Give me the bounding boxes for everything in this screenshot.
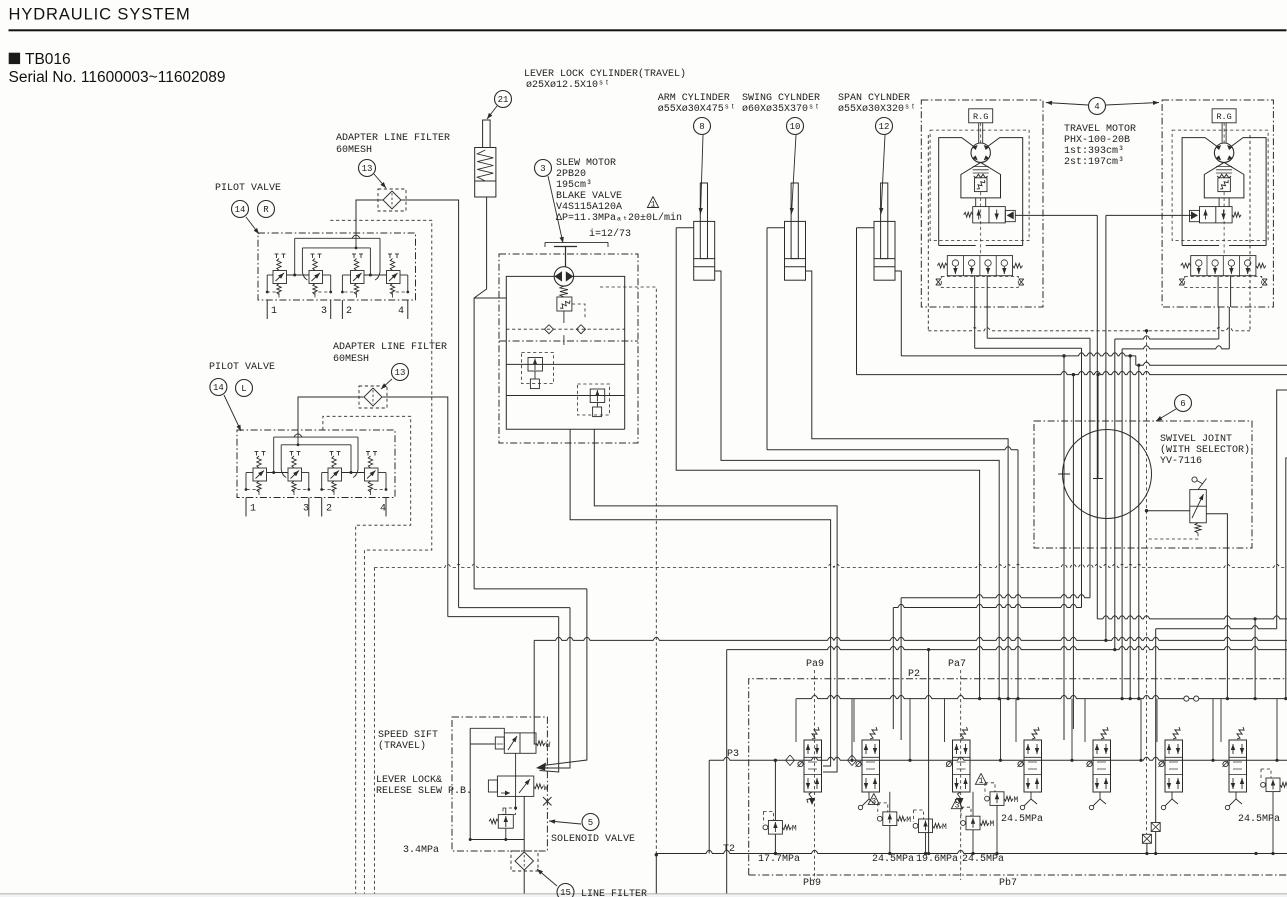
relief valve 17.7MPa — [768, 821, 782, 835]
travel brake pentagon — [1204, 162, 1244, 198]
feed wire 1 from filter L — [448, 616, 559, 618]
svg-text:15: 15 — [560, 888, 571, 897]
slew check valve line — [506, 328, 624, 330]
balloon 13 (R) — [359, 160, 376, 177]
svg-text:Pa7: Pa7 — [948, 659, 966, 670]
slew motor drive shaft T — [554, 246, 577, 248]
travel brake valve — [975, 178, 988, 192]
selector valve — [1190, 490, 1207, 523]
wire lever lock cylinder down — [474, 197, 487, 589]
adapter line filter 13 R — [378, 189, 406, 211]
relief valve right 24.5MPa — [1266, 778, 1280, 792]
slew relief valve lower — [590, 389, 605, 403]
svg-text:3.4MPa: 3.4MPa — [403, 845, 439, 856]
travel pilot dashed wire — [1146, 331, 1148, 740]
leader arrows balloon 4 — [1046, 103, 1088, 106]
leader arrow to pilot valve R — [246, 217, 259, 234]
svg-text:1st:393cm³: 1st:393cm³ — [1064, 146, 1124, 157]
leader arrow solenoid valve — [549, 821, 581, 824]
svg-text:R: R — [263, 205, 269, 215]
travel motor shaft — [978, 123, 980, 143]
gauge port R.G — [1212, 109, 1236, 123]
wire filter L to pilot valve L crown — [298, 397, 364, 434]
line filter 15 — [511, 851, 538, 871]
SPAN CYLNDER body — [874, 221, 895, 280]
svg-text:2: 2 — [326, 504, 332, 515]
svg-text:17.7MPa: 17.7MPa — [758, 854, 800, 865]
travel shift valve — [947, 256, 1012, 276]
svg-text:3: 3 — [540, 164, 545, 174]
drain solid below T2 — [655, 855, 657, 894]
slew relief line lower — [506, 395, 624, 397]
travel motor envelope — [939, 138, 974, 246]
travel brake valve — [1218, 178, 1231, 192]
feed wire 3 from lever lock cylinder — [474, 588, 587, 590]
leader arrow SPAN CYLNDER — [881, 135, 885, 214]
feed wire 2 from filter R — [459, 607, 570, 609]
svg-text:13: 13 — [395, 368, 406, 378]
relief valve section3 24.5MPa — [966, 816, 980, 830]
balloon 5 — [582, 814, 599, 831]
svg-text:1: 1 — [271, 306, 277, 317]
leader arrow line filter — [537, 869, 557, 886]
counterbalance valve — [973, 207, 1006, 223]
check diamond right — [577, 325, 586, 334]
control valve block box — [749, 679, 1287, 875]
SPAN CYLNDER rod-side port wire — [857, 227, 875, 229]
balloon 8 — [694, 118, 711, 135]
svg-text:Pb9: Pb9 — [803, 877, 821, 889]
svg-text:3: 3 — [955, 802, 960, 811]
travel motor envelope — [1182, 138, 1217, 246]
relief valve high 24.5MPa right of S3 — [990, 792, 1004, 806]
ARM CYLINDER rod-side port wire — [676, 227, 694, 229]
svg-text:ΔP=11.3MPaₐₜ20±0L/min: ΔP=11.3MPaₐₜ20±0L/min — [556, 212, 682, 224]
spool valve section x=1102 — [1084, 699, 1086, 742]
selector right wire — [1206, 514, 1227, 699]
gauge port R.G — [969, 109, 993, 123]
spool valve section x=961.5 — [944, 699, 946, 742]
leader arrow to filter R — [374, 174, 386, 188]
svg-text:60MESH: 60MESH — [333, 354, 369, 365]
travel brake pentagon — [961, 162, 1001, 198]
right drop wire — [1254, 619, 1256, 699]
svg-text:ø25Xø12.5X10ˢᵗ: ø25Xø12.5X10ˢᵗ — [526, 80, 610, 91]
manifold top bus — [796, 695, 1287, 698]
slew output wire A — [594, 429, 837, 772]
svg-text:3: 3 — [871, 797, 876, 806]
svg-text:P2: P2 — [908, 669, 920, 680]
section marker TB016 — [9, 53, 20, 64]
slew motor column — [563, 335, 565, 345]
cross symbol closed port — [543, 797, 552, 806]
svg-text:24.5MPa: 24.5MPa — [1001, 814, 1043, 825]
svg-text:SPEED SIFT: SPEED SIFT — [378, 730, 438, 741]
swivel pass wire a — [1063, 356, 1065, 740]
spool valve section x=1033 — [1015, 699, 1017, 742]
slew motor block box — [499, 254, 638, 443]
row right A — [1097, 616, 1287, 619]
solenoid block box — [452, 717, 547, 851]
svg-text:2PB20: 2PB20 — [556, 169, 586, 180]
left counterbalance pilot wire — [1015, 214, 1097, 216]
arm cylinder base wire staircase — [721, 276, 999, 698]
balloon R — [258, 201, 275, 218]
svg-text:Serial No. 11600003~11602089: Serial No. 11600003~11602089 — [9, 69, 226, 86]
leader arrow swivel — [1156, 409, 1176, 421]
balloon L — [236, 380, 253, 397]
pilot line Pa7-Pb7 dashed — [960, 670, 962, 880]
travel inner dashed box — [930, 130, 1029, 240]
svg-text:TRAVEL MOTOR: TRAVEL MOTOR — [1064, 124, 1136, 135]
leader arrow to pilot valve L — [224, 395, 241, 431]
wire lever lock branch into slew block — [474, 297, 506, 299]
travel brake springs — [1216, 166, 1232, 168]
svg-text:W: W — [544, 784, 549, 793]
svg-text:24.5MPa: 24.5MPa — [962, 854, 1004, 865]
spool valve section x=813 — [795, 699, 797, 742]
travel brake column — [975, 198, 977, 207]
svg-text:RELESE SLEW P.B.: RELESE SLEW P.B. — [376, 786, 472, 797]
bottom window edge strip — [0, 893, 1287, 895]
row to manifold A — [901, 595, 1090, 598]
svg-text:M: M — [1014, 796, 1019, 805]
swing cylinder base wire staircase — [812, 276, 1008, 698]
travel motor circle — [1214, 143, 1233, 162]
svg-text:SOLENOID VALVE: SOLENOID VALVE — [551, 834, 635, 845]
svg-text:i=12/73: i=12/73 — [589, 228, 631, 240]
svg-text:PHX-100-20B: PHX-100-20B — [1064, 135, 1130, 146]
small diamond on bus — [786, 755, 795, 766]
dashed drain path B from pilot R box — [330, 220, 432, 893]
svg-text:HYDRAULIC SYSTEM: HYDRAULIC SYSTEM — [9, 6, 191, 24]
svg-text:1: 1 — [979, 777, 984, 786]
svg-text:ø55Xø30X320ˢᵗ: ø55Xø30X320ˢᵗ — [838, 104, 916, 115]
relief valve section2 24.5MPa — [883, 812, 897, 826]
SWING CYLNDER base port step — [806, 271, 812, 276]
svg-text:2: 2 — [346, 306, 352, 317]
svg-text:195cm³: 195cm³ — [556, 180, 592, 191]
svg-text:21: 21 — [498, 95, 509, 105]
slew brake valve — [557, 297, 572, 311]
right edge loop wire A — [1277, 390, 1287, 629]
right edge loop wire B — [1286, 458, 1287, 699]
speed shift valve — [504, 733, 536, 753]
SWING CYLNDER rod-side port wire — [767, 227, 785, 229]
gear bracket — [545, 241, 608, 243]
svg-text:LINE FILTER: LINE FILTER — [581, 889, 647, 897]
svg-text:14: 14 — [235, 205, 246, 215]
svg-text:R.G: R.G — [973, 112, 988, 122]
manifold rail vertical — [726, 650, 728, 894]
ARM CYLINDER base port step — [715, 271, 721, 276]
swivel joint box — [1034, 421, 1252, 548]
svg-text:1: 1 — [250, 504, 256, 515]
spool valve section x=871 — [853, 699, 855, 742]
span cylinder base wire to right edge — [900, 276, 902, 356]
svg-text:ø55Xø30X475ˢᵗ: ø55Xø30X475ˢᵗ — [658, 104, 736, 115]
SPAN CYLNDER base port step — [895, 271, 901, 276]
swivel pass wire b — [1072, 375, 1074, 729]
slew relief line upper — [506, 363, 624, 365]
svg-text:L: L — [241, 384, 246, 394]
svg-text:PILOT VALVE: PILOT VALVE — [209, 362, 275, 373]
crossed plug symbol 1 — [1155, 729, 1157, 823]
svg-text:12: 12 — [879, 122, 890, 132]
travel motor center dashed line — [1223, 192, 1225, 256]
svg-text:SLEW MOTOR: SLEW MOTOR — [556, 158, 616, 169]
pilot valve 14L block — [237, 430, 395, 498]
svg-text:TB016: TB016 — [25, 51, 71, 68]
balloon 10 — [787, 118, 804, 135]
pilot line Pa9-Pb9 dashed — [814, 670, 816, 880]
balloon 4 travel motors — [1089, 98, 1106, 115]
svg-text:BLAKE VALVE: BLAKE VALVE — [556, 191, 622, 202]
travel shift valve — [1191, 256, 1256, 276]
svg-text:10: 10 — [790, 122, 801, 132]
slew brake spring — [560, 286, 568, 297]
svg-text:V4S115A120A: V4S115A120A — [556, 202, 622, 213]
svg-text:2st:197cm³: 2st:197cm³ — [1064, 157, 1124, 168]
svg-text:60MESH: 60MESH — [336, 145, 372, 156]
lever lock cylinder body — [483, 120, 491, 148]
svg-text:24.5MPa: 24.5MPa — [872, 854, 914, 865]
dashed pilot bus — [374, 564, 1287, 567]
svg-text:3: 3 — [303, 504, 309, 515]
svg-text:LEVER LOCK&: LEVER LOCK& — [376, 775, 442, 786]
selector spring — [1195, 523, 1201, 533]
svg-text:LEVER LOCK CYLINDER(TRAVEL): LEVER LOCK CYLINDER(TRAVEL) — [524, 68, 686, 80]
counterbalance valve — [1200, 207, 1233, 223]
balloon 15 — [557, 884, 574, 897]
svg-text:Pa9: Pa9 — [806, 659, 824, 670]
selector left wire — [1147, 510, 1190, 512]
line filter wire down — [523, 870, 525, 894]
svg-text:Pb7: Pb7 — [999, 877, 1017, 889]
svg-text:YV-7116: YV-7116 — [1160, 456, 1202, 467]
svg-text:R.G: R.G — [1216, 112, 1231, 122]
svg-text:W: W — [546, 741, 551, 750]
svg-text:(WITH SELECTOR): (WITH SELECTOR) — [1160, 444, 1250, 456]
svg-text:M: M — [942, 823, 947, 832]
spool valve section x=1174 — [1156, 699, 1158, 742]
right travel motor port wire B — [1228, 307, 1230, 349]
balloon 3 — [535, 160, 552, 177]
wire filter R output down right side — [402, 200, 459, 608]
travel motor shaft — [1221, 123, 1223, 143]
travel shift dashed frame — [1185, 276, 1262, 287]
right counterbalance pilot wire — [1106, 214, 1192, 216]
arm cylinder rod-side wire staircase — [676, 228, 979, 699]
main bus 2 — [727, 646, 1287, 649]
travel brake springs — [973, 166, 989, 168]
span cylinder rod-side wire to right edge — [856, 228, 858, 375]
swivel stub ends — [1058, 473, 1070, 475]
lever lock valve — [497, 776, 533, 796]
ARM CYLINDER body — [694, 221, 715, 280]
T2 return line — [656, 850, 1287, 853]
travel motor box — [921, 100, 1043, 307]
svg-text:M: M — [990, 820, 995, 829]
travel inner dashed box — [1172, 130, 1268, 240]
svg-text:19.6MPa: 19.6MPa — [916, 854, 958, 865]
balloon 14 (R) — [232, 201, 249, 218]
leader arrow SWING CYLNDER — [792, 135, 797, 214]
left travel motor port wire A — [974, 307, 976, 348]
leader arrow slew motor — [548, 176, 563, 243]
adapter line filter 13 L — [359, 386, 387, 408]
leader arrow to filter L — [381, 379, 392, 389]
solenoid internal wires — [470, 743, 495, 745]
selector lever — [1198, 479, 1207, 490]
main bus 1 — [534, 637, 1287, 640]
leader arrow to lever lock cylinder — [487, 106, 497, 119]
svg-text:ADAPTER LINE FILTER: ADAPTER LINE FILTER — [336, 133, 450, 144]
svg-text:ø60Xø35X370ˢᵗ: ø60Xø35X370ˢᵗ — [742, 104, 820, 115]
swivel joint circle — [1063, 430, 1152, 519]
travel motor center dashed line — [980, 192, 982, 256]
SWING CYLNDER body — [785, 221, 806, 280]
wire filter R to pilot valve R crown — [356, 200, 383, 234]
slew motor circle — [554, 267, 573, 286]
svg-text:1: 1 — [651, 200, 656, 209]
balloon 14 (L) — [210, 379, 227, 396]
relief valve 19.6MPa — [919, 819, 933, 833]
spool valve section x=1238 — [1220, 699, 1222, 742]
swivel pass wire d — [1138, 365, 1140, 698]
travel brake column — [1218, 198, 1220, 207]
row from span loop to section 5 — [1156, 626, 1277, 629]
svg-text:5: 5 — [588, 818, 593, 828]
right travel motor port wire A — [1218, 307, 1220, 339]
slew brake pilot dashed — [572, 304, 585, 318]
svg-text:SWIVEL JOINT: SWIVEL JOINT — [1160, 434, 1232, 445]
P3 supply line — [709, 757, 1287, 760]
balloon 21 — [495, 91, 512, 108]
slew output wire B — [570, 429, 831, 766]
svg-text:M: M — [792, 825, 797, 834]
travel motors outer dashed box — [927, 135, 929, 331]
slew relief valve upper — [528, 358, 543, 372]
svg-text:13: 13 — [362, 164, 373, 174]
svg-text:M: M — [906, 816, 911, 825]
svg-text:ADAPTER LINE FILTER: ADAPTER LINE FILTER — [333, 342, 447, 353]
wire filter L output down right side — [383, 397, 448, 617]
balloon 12 — [876, 118, 893, 135]
travel shift dashed frame — [941, 276, 1018, 287]
svg-text:PILOT VALVE: PILOT VALVE — [215, 183, 281, 194]
travel output ports — [1217, 276, 1219, 307]
svg-text:SWING CYLNDER: SWING CYLNDER — [742, 93, 820, 104]
P2 drop wire — [928, 650, 930, 854]
svg-text:SPAN CYLNDER: SPAN CYLNDER — [838, 93, 910, 104]
swivel pass wire c — [1129, 356, 1131, 699]
dashed bus drop to bottom — [373, 568, 375, 894]
row to manifold B — [893, 604, 1081, 607]
svg-text:4: 4 — [398, 306, 404, 317]
svg-text:24.5MPa: 24.5MPa — [1238, 814, 1280, 825]
left travel motor port wire B — [986, 307, 988, 338]
solenoid relief valve — [498, 815, 513, 829]
bus1 left drop to solenoid — [534, 640, 536, 744]
svg-text:4: 4 — [1094, 102, 1099, 112]
leader arrow ARM CYLINDER — [701, 135, 704, 214]
dashed drain path A around pilot L — [323, 416, 411, 893]
counterbalance pilot plug — [1190, 210, 1200, 221]
slew box divider — [499, 340, 638, 342]
svg-text:ARM CYLINDER: ARM CYLINDER — [658, 93, 730, 104]
svg-text:3: 3 — [321, 306, 327, 317]
warning triangle 1 — [647, 197, 658, 208]
slew block inner frame — [506, 276, 624, 429]
svg-text:4: 4 — [380, 504, 386, 515]
balloon 6 — [1175, 395, 1192, 412]
svg-text:14: 14 — [213, 383, 224, 393]
travel motor circle — [971, 143, 990, 162]
svg-text:(TRAVEL): (TRAVEL) — [378, 740, 426, 752]
pilot valve 14R block — [258, 233, 416, 300]
travel motor box — [1162, 100, 1273, 307]
svg-text:8: 8 — [699, 122, 704, 132]
counterbalance pilot plug — [1005, 210, 1015, 221]
crossed plug symbol 2 — [1142, 834, 1151, 843]
travel output ports — [974, 276, 976, 307]
pilot drain dashed to T2 — [600, 287, 656, 855]
swing cylinder rod-side wire staircase — [766, 228, 768, 450]
check diamond left — [545, 325, 554, 334]
svg-text:6: 6 — [1180, 399, 1185, 409]
selector drain dashed — [1147, 533, 1199, 539]
balloon 13 (L) — [392, 364, 409, 381]
header rule — [9, 29, 1287, 31]
swivel bundle stub wire — [1097, 375, 1099, 479]
